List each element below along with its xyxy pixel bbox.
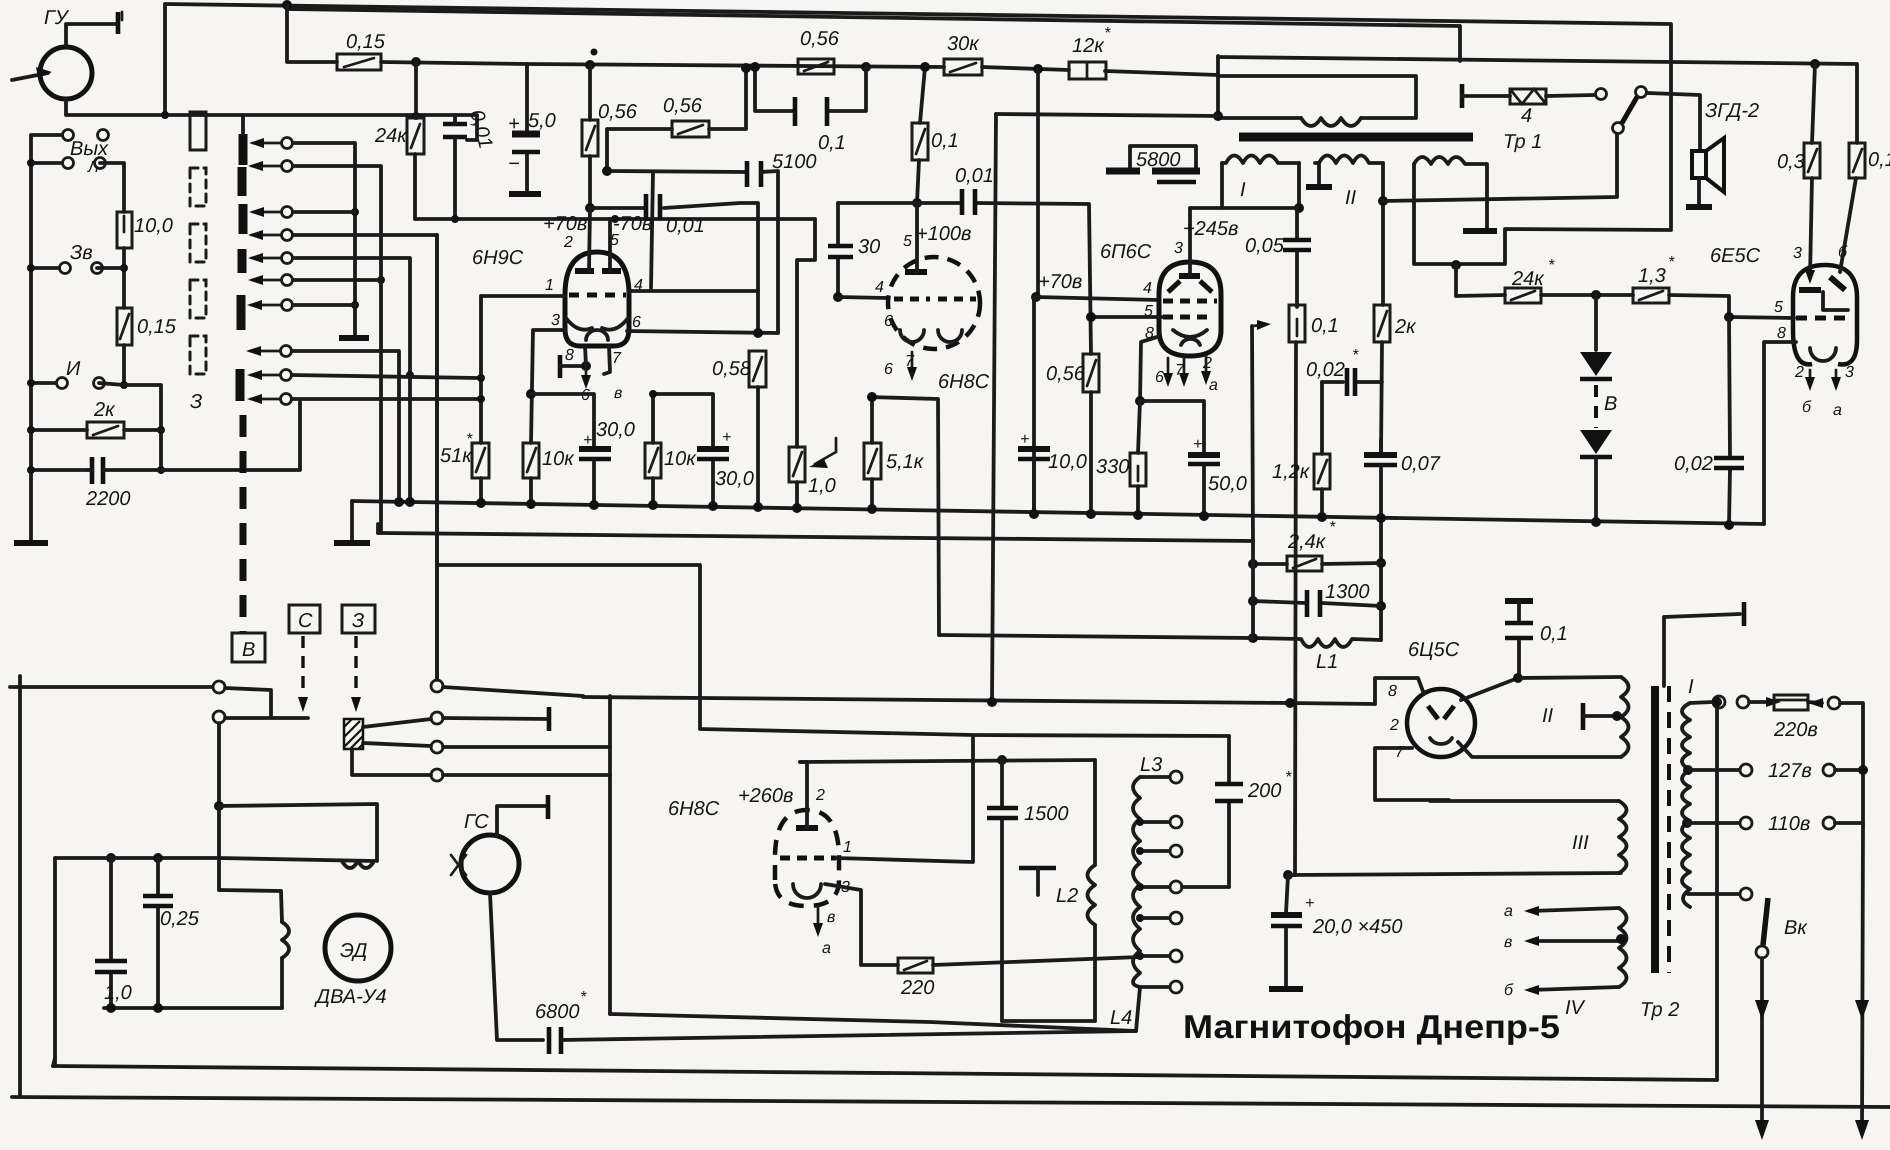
node plate V1a bbox=[585, 203, 595, 213]
resistor 5,1k bbox=[870, 397, 874, 443]
anode supply line y62-74 bbox=[527, 64, 1218, 75]
potentiometer 1,0 volume bbox=[797, 219, 815, 447]
box Z bbox=[342, 605, 375, 633]
ground symbol left rail bbox=[14, 540, 48, 546]
V2 grid dashes bbox=[894, 297, 930, 302]
resistor 10k cathode V1b bbox=[651, 394, 655, 443]
wire switch row7 bbox=[293, 303, 355, 307]
node GU line x416 bbox=[412, 112, 420, 120]
oscillator box bottom wire bbox=[610, 1014, 1136, 1031]
switch shaft dashed bbox=[240, 415, 247, 633]
wire grid rail y219 bbox=[415, 217, 815, 221]
V6 plate wires to Tr2 II bbox=[1461, 678, 1518, 700]
svg-text:L2: L2 bbox=[1056, 885, 1078, 907]
svg-text:Тр 1: Тр 1 bbox=[1503, 131, 1542, 153]
wire 0,15 feed from top line bbox=[287, 5, 337, 62]
capacitor 10,0 decoupling bbox=[1032, 297, 1036, 514]
chassis bar mid bbox=[1019, 866, 1056, 871]
capacitor 5,0 electrolytic bbox=[525, 64, 529, 192]
svg-text:6Н8С: 6Н8С bbox=[938, 371, 990, 393]
svg-text:*: * bbox=[1329, 519, 1336, 536]
wire to oscillator supply bbox=[996, 114, 1218, 116]
svg-text:L4: L4 bbox=[1110, 1007, 1132, 1029]
Tr2 winding II box bbox=[1518, 677, 1621, 678]
svg-text:6: 6 bbox=[632, 314, 641, 331]
wire 10,0 to Zv row bbox=[122, 248, 126, 308]
wire winding II to 6E5S switch bbox=[1383, 134, 1617, 201]
svg-text:*: * bbox=[1285, 769, 1292, 786]
wire switch row5 to x410 rail bbox=[293, 258, 410, 501]
wire socket top to switch column bbox=[435, 235, 439, 680]
wire +70v screen feed bbox=[1036, 69, 1038, 297]
svg-text:*: * bbox=[466, 431, 473, 448]
wire 1500/L2 bottom bbox=[1002, 1019, 1095, 1023]
V2 plate bar bbox=[905, 269, 927, 275]
svg-text:1,3: 1,3 bbox=[1638, 265, 1666, 287]
dashed arrow from C bbox=[301, 636, 304, 695]
svg-text:5: 5 bbox=[1144, 303, 1153, 320]
svg-text:0,56: 0,56 bbox=[598, 101, 638, 123]
chassis bar top right bbox=[1664, 614, 1740, 617]
svg-text:6Ц5С: 6Ц5С bbox=[1408, 639, 1460, 661]
svg-text:2: 2 bbox=[1794, 364, 1804, 381]
svg-text:0,01: 0,01 bbox=[666, 215, 705, 237]
wire x55 drop bbox=[53, 858, 57, 1066]
svg-text:0,02: 0,02 bbox=[1674, 453, 1713, 475]
svg-text:10,0: 10,0 bbox=[1048, 451, 1087, 473]
svg-text:30,0: 30,0 bbox=[715, 468, 754, 490]
ground bus 1 bbox=[352, 501, 1764, 524]
svg-text:И: И bbox=[66, 358, 81, 380]
V5 grid dash bbox=[780, 856, 836, 861]
svg-text:б: б bbox=[1802, 399, 1812, 416]
wire switch row8 to bus bbox=[292, 351, 399, 501]
svg-text:12к: 12к bbox=[1072, 35, 1105, 57]
svg-text:а: а bbox=[1504, 903, 1513, 920]
svg-text:6: 6 bbox=[1155, 369, 1164, 386]
svg-text:2: 2 bbox=[563, 234, 573, 251]
bottom border wire A bbox=[53, 1066, 1717, 1080]
svg-text:30к: 30к bbox=[947, 33, 980, 55]
svg-text:200: 200 bbox=[1247, 780, 1281, 802]
capacitor 2200 bbox=[92, 457, 103, 484]
svg-text:+: + bbox=[583, 432, 592, 449]
Tr1 hum-bucking winding bbox=[1301, 118, 1361, 126]
coil L1 bbox=[1253, 638, 1381, 647]
svg-text:0,02: 0,02 bbox=[1306, 359, 1345, 381]
svg-text:10к: 10к bbox=[664, 448, 697, 470]
svg-text:+: + bbox=[1193, 436, 1202, 453]
capacitor 200* bbox=[1182, 885, 1229, 889]
svg-text:0,3: 0,3 bbox=[1777, 151, 1805, 173]
oscillator box left edge bbox=[608, 696, 612, 1014]
svg-text:+100в: +100в bbox=[916, 223, 972, 245]
svg-text:Вк: Вк bbox=[1784, 917, 1808, 939]
svg-text:0,1: 0,1 bbox=[1868, 149, 1890, 171]
svg-text:8: 8 bbox=[565, 347, 574, 364]
node 12k feed bbox=[1033, 64, 1043, 74]
motor field winding bbox=[281, 891, 282, 1008]
wires socket to oscillator box bbox=[443, 687, 583, 719]
svg-text:3: 3 bbox=[551, 312, 560, 329]
svg-text:6: 6 bbox=[884, 361, 893, 378]
svg-text:6П6С: 6П6С bbox=[1100, 241, 1152, 263]
svg-text:330: 330 bbox=[1096, 456, 1129, 478]
svg-text:0,1: 0,1 bbox=[931, 130, 959, 152]
V1 cathode pin8 tap bbox=[558, 355, 563, 378]
bottom border wire B bbox=[12, 1097, 1890, 1107]
potentiometer 0,1 rec level bbox=[1252, 326, 1253, 541]
box C bbox=[289, 605, 320, 633]
V3 plate bar bbox=[1179, 273, 1200, 279]
svg-text:220: 220 bbox=[900, 977, 934, 999]
svg-text:I: I bbox=[1240, 179, 1246, 201]
svg-text:2: 2 bbox=[1389, 717, 1399, 734]
resistor 0,56 plate load V1 bbox=[588, 65, 592, 208]
motor caps bottom wire bbox=[104, 1006, 282, 1010]
wire to Tr2 winding III bbox=[1288, 873, 1621, 875]
V1 plate bars bbox=[575, 268, 594, 274]
svg-text:IV: IV bbox=[1565, 997, 1586, 1019]
svg-text:0,1: 0,1 bbox=[818, 132, 846, 154]
svg-text:3: 3 bbox=[1845, 364, 1854, 381]
svg-text:*: * bbox=[1104, 25, 1111, 42]
capacitor 50,0 cathode V3 bbox=[1140, 401, 1204, 516]
svg-text:0,56: 0,56 bbox=[1046, 363, 1086, 385]
ground bus 1 left ground bbox=[350, 501, 354, 540]
svg-text:8: 8 bbox=[1145, 325, 1154, 342]
node GU line x165 bbox=[161, 111, 169, 119]
V4 plate wire bbox=[1810, 178, 1812, 278]
chassis bar under winding III bbox=[1463, 228, 1497, 234]
svg-text:+260в: +260в bbox=[738, 785, 794, 807]
svg-text:1,0: 1,0 bbox=[808, 475, 836, 497]
capacitor 5800 bracket bbox=[1130, 146, 1196, 168]
svg-text:+: + bbox=[722, 429, 731, 446]
primary taps bbox=[1690, 702, 1713, 703]
bias feedback wire bbox=[437, 565, 1229, 736]
wire bar1 to GU line bbox=[241, 115, 245, 134]
svg-text:+70в: +70в bbox=[543, 213, 587, 235]
fuse 220v bbox=[1749, 700, 1774, 704]
svg-text:L1: L1 bbox=[1316, 651, 1338, 673]
svg-text:L3: L3 bbox=[1140, 754, 1162, 776]
svg-text:ЗГД-2: ЗГД-2 bbox=[1705, 100, 1759, 122]
wire jack row connections bbox=[31, 163, 88, 470]
supply line y760 bbox=[800, 760, 1095, 762]
svg-text:0,58: 0,58 bbox=[712, 358, 751, 380]
ground bus 2 bbox=[378, 533, 1253, 541]
capacitor 5100 feedback bbox=[607, 171, 745, 172]
oscillator box top wire bbox=[583, 697, 1375, 704]
wire III bottom to 24k line bbox=[1454, 265, 1458, 296]
svg-text:1,2к: 1,2к bbox=[1272, 461, 1311, 483]
ground under 5,0 bbox=[509, 191, 541, 197]
connector pin top bbox=[116, 12, 121, 34]
wire grid 6N8S second bbox=[1036, 297, 1159, 300]
V4 pin8 wire bbox=[1764, 342, 1796, 524]
svg-text:*: * bbox=[1352, 347, 1359, 364]
wires hatched box to socket bbox=[363, 719, 431, 727]
svg-text:0,15: 0,15 bbox=[137, 316, 177, 338]
svg-text:5: 5 bbox=[903, 233, 912, 250]
capacitor 0,1 decoupling bbox=[755, 67, 866, 111]
svg-text:2,4к: 2,4к bbox=[1287, 531, 1327, 553]
dashed arrow from Z bbox=[354, 636, 357, 695]
resistor 0,56 screen V3 bbox=[1083, 354, 1099, 392]
hatched switch contact bbox=[344, 719, 363, 749]
svg-text:4: 4 bbox=[1521, 105, 1532, 127]
resistor 0,56 interstage bbox=[607, 129, 672, 171]
svg-text:24к: 24к bbox=[374, 125, 408, 147]
wire lever to speaker bbox=[1647, 93, 1700, 151]
capacitor 30,0 cathode V1a bbox=[579, 446, 611, 452]
svg-text:6: 6 bbox=[884, 313, 893, 330]
V6 internals bbox=[1428, 706, 1454, 719]
svg-text:5,1к: 5,1к bbox=[886, 451, 925, 473]
V5 plate bar and feed bbox=[796, 825, 818, 831]
node supply x590 bbox=[585, 60, 595, 70]
svg-text:3: 3 bbox=[1174, 240, 1183, 257]
svg-text:0,56: 0,56 bbox=[800, 28, 840, 50]
V4 cathode arc bbox=[1810, 348, 1836, 361]
V1 pin6 wire to 0,58 bbox=[627, 331, 778, 333]
right border vertical bbox=[1715, 702, 1719, 1080]
svg-text:+: + bbox=[1305, 895, 1314, 912]
resistor 12k double box bbox=[1069, 62, 1106, 79]
switch contact circles and arrows bbox=[246, 138, 293, 405]
top bus line B inner bbox=[287, 9, 1460, 61]
svg-text:III: III bbox=[1572, 832, 1589, 854]
svg-text:2: 2 bbox=[815, 787, 825, 804]
svg-text:51к: 51к bbox=[440, 445, 473, 467]
resistor 2k bbox=[87, 422, 124, 438]
wire winding III right end to chassis bbox=[1485, 164, 1489, 228]
wire switch row2 to x381 rail bbox=[293, 166, 381, 533]
capacitor 0,02 bbox=[1729, 317, 1730, 525]
V1 grid1 wire to 51k bbox=[481, 294, 565, 298]
svg-text:1500: 1500 bbox=[1024, 803, 1069, 825]
svg-text:1: 1 bbox=[545, 277, 554, 294]
svg-text:1: 1 bbox=[843, 839, 852, 856]
cathode wire 2nd 6N8S triode bbox=[869, 397, 939, 635]
V5 heater arrow bbox=[817, 906, 820, 930]
svg-text:В: В bbox=[242, 639, 255, 661]
svg-text:*: * bbox=[1548, 257, 1555, 274]
resistor 0,1 right bbox=[1849, 143, 1865, 178]
svg-text:4: 4 bbox=[875, 279, 884, 296]
Tr1 primary feed vertical bbox=[1216, 56, 1220, 118]
svg-text:Зв: Зв bbox=[70, 242, 93, 264]
node bus junctions bbox=[476, 498, 486, 508]
terminal circles left column bbox=[63, 130, 74, 141]
svg-text:II: II bbox=[1542, 705, 1554, 727]
tap 110v bbox=[1682, 818, 1692, 828]
svg-text:6Е5С: 6Е5С bbox=[1710, 245, 1761, 267]
svg-text:Магнитофон Днепр-5: Магнитофон Днепр-5 bbox=[1183, 1008, 1560, 1045]
svg-text:а: а bbox=[1833, 402, 1842, 419]
V3 beam plates bbox=[1168, 281, 1212, 292]
svg-text:8: 8 bbox=[1388, 683, 1397, 700]
wire 24k bottom to 219 rail bbox=[413, 154, 417, 219]
svg-text:30,0: 30,0 bbox=[596, 419, 635, 441]
svg-text:*: * bbox=[580, 989, 587, 1006]
wire switch row4 to x437 rail bbox=[293, 235, 437, 680]
V3 cathode arc bbox=[1173, 330, 1207, 337]
V3 plate line bbox=[1190, 206, 1299, 210]
svg-text:+245в: +245в bbox=[1183, 218, 1239, 240]
svg-text:8: 8 bbox=[1777, 325, 1786, 342]
svg-text:+70в: +70в bbox=[1038, 271, 1082, 293]
svg-text:127в: 127в bbox=[1768, 760, 1812, 782]
wire 2200 row to switch bbox=[161, 402, 300, 470]
svg-text:0,56: 0,56 bbox=[663, 95, 703, 117]
V5 cathode wire to 220 bbox=[825, 884, 898, 965]
resistor 51k grid leak bbox=[479, 296, 483, 443]
svg-text:2к: 2к bbox=[93, 399, 116, 421]
svg-text:2200: 2200 bbox=[85, 488, 131, 510]
svg-text:220в: 220в bbox=[1773, 719, 1818, 741]
svg-text:б: б bbox=[1504, 982, 1514, 999]
svg-text:ЭД: ЭД bbox=[340, 940, 367, 962]
svg-text:4: 4 bbox=[1143, 280, 1152, 297]
wire switch row9 to 51k node bbox=[292, 375, 478, 378]
Tr2 core bbox=[1651, 686, 1659, 973]
V3 screen wire bbox=[1095, 315, 1163, 319]
node junction on III bottom bbox=[1451, 260, 1461, 270]
svg-text:6Н8С: 6Н8С bbox=[668, 798, 720, 820]
svg-text:7: 7 bbox=[612, 350, 622, 367]
primary bottom tap bbox=[1688, 892, 1740, 896]
resistor 220 bbox=[898, 958, 933, 973]
resistor 330 cathode V3 bbox=[1138, 401, 1140, 453]
svg-text:3: 3 bbox=[1793, 245, 1802, 262]
Tr1 core bar bbox=[1239, 133, 1473, 142]
connector line upper bbox=[10, 685, 213, 689]
arrow into head GU bbox=[12, 73, 48, 80]
V3 heater arrows bbox=[1167, 358, 1170, 380]
svg-text:II: II bbox=[1345, 187, 1357, 209]
V4 grid dash bbox=[1796, 316, 1850, 321]
svg-text:110в: 110в bbox=[1768, 813, 1810, 835]
resistor 0,56 supply chain bbox=[798, 59, 834, 74]
Tr1 winding II bbox=[1315, 156, 1383, 164]
svg-text:I: I bbox=[1688, 676, 1694, 698]
svg-text:ГС: ГС bbox=[464, 811, 489, 833]
Tr2 winding IV bbox=[1619, 908, 1627, 987]
socket terminals column bbox=[431, 680, 443, 692]
resistor 0,15 divider bbox=[117, 308, 132, 345]
capacitor 1,0 bbox=[106, 853, 116, 863]
Tr1 feedback loop rectangle bbox=[1218, 76, 1416, 118]
transformer Tr1 winding III bbox=[1414, 157, 1486, 164]
resistor 0,3 bbox=[1810, 59, 1820, 69]
capacitor 0,01 input bbox=[443, 124, 467, 137]
svg-text:З: З bbox=[190, 391, 202, 413]
V6 pin8 jog bbox=[1375, 678, 1424, 704]
node Tr1 primary bottom bbox=[1213, 111, 1223, 121]
V5 grid wire bbox=[836, 736, 973, 862]
capacitor 30,0 cathode V1b bbox=[653, 394, 713, 506]
V1 cathode arcs bbox=[566, 318, 592, 330]
svg-text:1,0: 1,0 bbox=[104, 982, 132, 1004]
V5 cathode arc bbox=[793, 884, 821, 898]
L3 terminals bbox=[1140, 775, 1170, 779]
wire switch row3 bbox=[293, 210, 355, 214]
switch moving contact bars bbox=[239, 134, 248, 165]
wire switch row6 bbox=[293, 278, 381, 282]
fuse-like resistor 4 bbox=[1460, 84, 1465, 108]
svg-text:0,25: 0,25 bbox=[160, 908, 200, 930]
tap 127v bbox=[1683, 765, 1693, 775]
svg-text:0,1: 0,1 bbox=[1311, 315, 1339, 337]
V3 grid dashes bbox=[1163, 299, 1217, 304]
diode rectifier V lower bbox=[1580, 430, 1612, 454]
wire grid 6E5S bbox=[1729, 317, 1794, 318]
coil L2 bbox=[1093, 760, 1097, 865]
svg-text:В: В bbox=[1604, 393, 1617, 415]
V1 grid dashes bbox=[569, 293, 626, 298]
coupling line 0,01 to output tube bbox=[838, 203, 1091, 354]
switch wafer dashed boxes bbox=[190, 112, 206, 374]
svg-text:С: С bbox=[298, 610, 313, 632]
V2 cathode arc bbox=[900, 330, 924, 342]
capacitor 30 grid bbox=[836, 203, 840, 297]
capacitor 0,1 filter bbox=[1505, 598, 1533, 604]
resistor 10k cathode V1a bbox=[523, 443, 539, 478]
pot 1,0 wiper arrow bbox=[815, 438, 836, 464]
capacitor 0,07 bbox=[1379, 440, 1383, 453]
node at 24k top feed bbox=[411, 57, 421, 67]
svg-text:0,1: 0,1 bbox=[1540, 623, 1568, 645]
ground under x355 bbox=[339, 335, 369, 341]
svg-text:4: 4 bbox=[634, 277, 643, 294]
svg-text:а: а bbox=[822, 940, 831, 957]
svg-text:б: б bbox=[1838, 244, 1848, 261]
wire 5100 to V1 pin4 bbox=[651, 172, 653, 288]
svg-text:2к: 2к bbox=[1394, 316, 1417, 338]
wire oscillator bias line bbox=[939, 635, 1253, 638]
wire switch row10 to 51k bbox=[292, 397, 481, 401]
svg-text:50,0: 50,0 bbox=[1208, 473, 1247, 495]
svg-text:а: а bbox=[1209, 377, 1218, 394]
svg-text:в: в bbox=[827, 909, 835, 926]
V1 grid2 wire bbox=[629, 289, 758, 293]
resistor 1,2k bbox=[1314, 454, 1330, 489]
svg-text:−: − bbox=[508, 153, 520, 175]
svg-text:ДВА-У4: ДВА-У4 bbox=[314, 986, 387, 1008]
V1 grid wire to cathode net bbox=[531, 330, 565, 443]
wire switch row1 to x355 rail bbox=[293, 143, 355, 335]
chassis tap winding II bbox=[1581, 703, 1586, 730]
wire resistor to node bbox=[381, 62, 527, 64]
record/play switch lever contacts bbox=[1613, 123, 1624, 134]
V2 heater arrow bbox=[911, 352, 914, 374]
capacitor 0,25 bbox=[153, 853, 163, 863]
wire GU top to connector bbox=[66, 24, 118, 47]
svg-text:0,15: 0,15 bbox=[346, 31, 386, 53]
svg-text:-70в: -70в bbox=[613, 213, 652, 235]
resistor 0,1 plate 6N8S bbox=[920, 67, 925, 123]
wire left jack rail bbox=[31, 135, 62, 540]
V3 cathode wire bbox=[1140, 337, 1157, 401]
resistor 24k bbox=[414, 62, 418, 118]
capacitor 20,0x450 bbox=[1283, 870, 1293, 880]
motor ED circle bbox=[325, 915, 391, 981]
resistor 30k bbox=[944, 59, 982, 75]
box B bbox=[232, 633, 265, 662]
svg-text:10к: 10к bbox=[542, 448, 575, 470]
